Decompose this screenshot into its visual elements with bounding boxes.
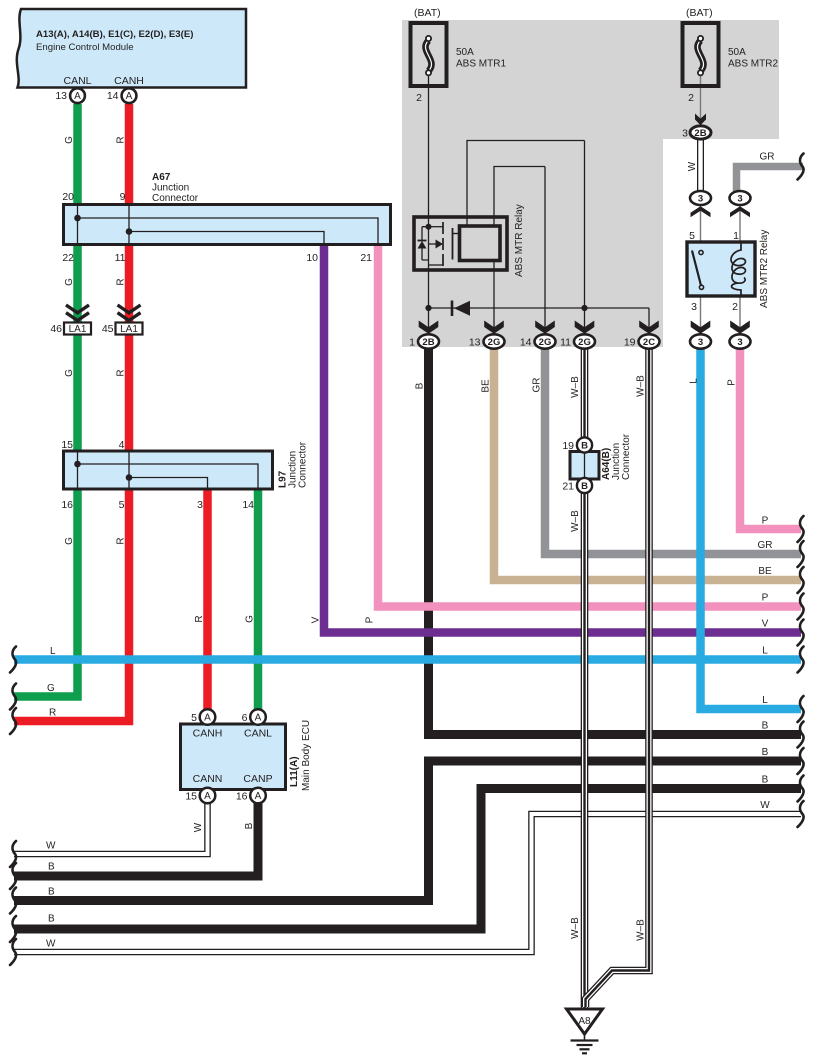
wire relay pin 3 to oval 3 [700,296,702,334]
svg-text:19: 19 [562,440,574,452]
wire R from L97 pin 3 to Main Body ECU pin 5 [203,487,212,710]
pin 19 circle B on A64(B) [577,437,592,452]
svg-text:BE: BE [758,566,772,577]
node junction dot diode row right [581,305,587,311]
svg-text:A: A [126,91,133,102]
break symbol right L row 2 [798,696,804,722]
svg-text:A: A [255,713,262,724]
arrow into oval 11 2G [575,321,595,334]
svg-text:11: 11 [560,337,571,349]
wire inside A67 pin9 to pin 10 [129,232,324,244]
break symbol right W row [798,801,804,827]
wire P from A67 pin 21 to right break [378,243,801,607]
junction connector A67 box [64,205,391,245]
break symbol right B row 2 [798,748,804,774]
svg-text:W: W [687,161,698,171]
arrow double chevron into LA1 left [66,305,89,313]
svg-text:W: W [46,841,56,852]
svg-text:W–B: W–B [570,510,581,532]
svg-text:3: 3 [698,194,703,205]
svg-text:14: 14 [107,90,119,102]
svg-text:Connector: Connector [152,193,199,204]
svg-text:GR: GR [532,378,543,393]
svg-text:W: W [760,800,770,811]
svg-text:P: P [762,593,769,604]
svg-text:G: G [64,537,75,545]
svg-text:Junction: Junction [152,183,189,194]
svg-text:B: B [581,441,588,452]
junction connector L97 box [64,451,273,489]
svg-text:A67: A67 [152,172,171,183]
svg-text:P: P [762,516,769,527]
arrow into oval 19 2C [639,321,659,334]
ABS MTR Relay outer box [414,217,507,270]
svg-text:B: B [762,721,769,732]
svg-text:ABS MTR Relay: ABS MTR Relay [514,204,525,277]
break symbol right GR top [798,154,804,180]
arrow into oval 3 from relay pin 3 [691,321,711,334]
wire G CANL from ECM pin 13 to A67 [73,104,82,206]
pin 15 circle A on L11 [200,788,216,804]
svg-text:22: 22 [62,252,74,264]
node junction dot diode row left [425,305,431,311]
svg-text:P: P [727,379,738,386]
svg-text:5: 5 [119,499,125,511]
arrow into oval 14 2G [535,321,555,334]
svg-text:L: L [762,646,768,657]
fuse element symbol MTR2 [697,41,703,72]
svg-text:13: 13 [55,90,67,102]
svg-text:L: L [762,695,768,706]
svg-text:V: V [762,619,769,630]
oval 19 2C [639,334,660,348]
break symbol right BE row [798,567,804,593]
break symbol right B row 3 [798,776,804,802]
svg-text:2C: 2C [643,337,655,348]
wire B from Main Body ECU pin 16 CANP to left break [14,803,258,876]
node dot A67 CANH [126,228,133,235]
wire inside L97 pin15 to pin 14 [78,464,259,488]
wire oval 3 to relay pin 1 [739,205,741,242]
pin 13 circle A on ECM [70,88,85,103]
svg-text:16: 16 [61,499,73,511]
svg-text:2G: 2G [578,337,591,348]
svg-text:3: 3 [698,337,703,348]
svg-text:15: 15 [61,439,73,451]
svg-text:2B: 2B [694,128,706,139]
wire G from LA1 to L97 pin 15 [73,335,82,454]
svg-text:Engine Control Module: Engine Control Module [36,42,134,53]
node dot L97 mid [126,474,133,481]
svg-text:B: B [244,822,255,829]
wire fuse ABS MTR2 to oval 3 2B [700,75,702,125]
svg-text:2G: 2G [488,337,501,348]
fuse 50A ABS MTR2 box [683,23,719,86]
svg-text:9: 9 [120,191,126,203]
svg-text:L: L [689,378,700,384]
arrow into oval 2B top right [695,114,706,126]
svg-text:20: 20 [62,191,74,203]
wire inside L97 through verticals [78,453,130,488]
svg-text:GR: GR [760,152,775,163]
wire R from A67 pin 11 to LA1 [125,243,134,322]
svg-text:A: A [204,791,211,802]
arrow into oval 1 2B [419,321,439,334]
wire R from L97 pin 5 to left break [14,487,129,721]
svg-text:4: 4 [119,439,125,451]
svg-text:G: G [64,369,75,377]
transistor Q1 driver symbol inside relay [418,222,460,266]
svg-text:R: R [49,708,56,719]
wire G from L97 pin 14 to Main Body ECU pin 6 [254,487,263,710]
wire G from A67 pin 22 to LA1 [73,243,82,322]
svg-text:W–B: W–B [570,917,581,939]
svg-text:B: B [762,775,769,786]
svg-text:G: G [47,683,55,694]
oval 3 under GR wire [730,191,751,205]
svg-text:CANP: CANP [243,773,272,785]
svg-text:50A: 50A [456,47,474,58]
pin 21 circle B on A64(B) [577,478,592,493]
svg-text:46: 46 [50,323,62,335]
oval 1 2B [418,334,439,348]
wire W from Main Body ECU pin 15 CANN to left break [14,803,208,854]
svg-text:R: R [116,537,127,544]
break symbol right V row [798,620,804,646]
svg-text:G: G [64,136,75,144]
svg-text:2: 2 [416,92,422,104]
break symbol left B row 1 [10,863,16,889]
svg-text:5: 5 [689,230,695,242]
ground symbol earth [571,1034,599,1053]
wire diode row [429,307,650,309]
wire inside A64(B) [584,452,586,478]
coil inside ABS MTR2 relay [731,242,745,296]
fuse 50A ABS MTR1 box [411,23,447,86]
wire V from A67 pin 10 to right break [324,243,801,633]
break symbol right B row 1 [798,722,804,748]
oval 3 under W wire [690,191,711,205]
svg-text:GR: GR [758,540,773,551]
break symbol right P row [798,516,804,542]
svg-text:R: R [194,615,205,622]
node dot L97 left [74,461,81,468]
diode D on motor relay row [451,301,454,317]
svg-text:6: 6 [242,712,248,724]
svg-text:Connector: Connector [621,433,632,480]
wire B row lower to left break [14,789,801,930]
svg-text:2: 2 [688,92,694,104]
wire diode row to oval 19 2C [648,308,650,334]
svg-text:16: 16 [236,791,248,803]
wire P from oval 3 relay pin 2 to right break [740,345,801,529]
wire relay coil to right loop [494,167,545,227]
ECM A13 connector box Engine Control Module [17,9,246,88]
arrow up into oval 3 right [730,206,750,217]
svg-text:13: 13 [469,337,481,349]
Main Body ECU L11 box [181,724,286,790]
svg-text:CANL: CANL [244,728,272,740]
svg-text:ABS MTR2 Relay: ABS MTR2 Relay [759,230,770,308]
svg-text:ABS MTR2: ABS MTR2 [728,59,778,70]
svg-text:Main Body ECU: Main Body ECU [301,720,312,791]
break symbol left W row 2 [10,939,16,965]
break symbol right P row 2 [798,594,804,620]
wire node to oval 11 2G [584,141,586,335]
svg-text:W–B: W–B [636,375,647,397]
ABS MTR Relay coil box [460,226,501,261]
svg-text:2B: 2B [422,337,434,348]
svg-text:CANL: CANL [63,75,91,87]
shaded relay block background right [663,20,779,139]
svg-text:2G: 2G [539,337,552,348]
svg-text:1: 1 [409,337,415,349]
svg-text:BE: BE [481,379,492,393]
oval 13 2G [484,334,505,348]
svg-text:LA1: LA1 [69,324,87,335]
svg-text:A: A [74,91,81,102]
svg-text:L: L [50,646,56,657]
oval 3 P wire [730,334,751,348]
svg-text:A: A [204,713,211,724]
arrow into oval 13 2G [484,321,504,334]
oval 11 2G [574,334,595,348]
pin 6 circle A on L11 [250,709,266,725]
svg-text:A13(A), A14(B), E1(C), E2(D),: A13(A), A14(B), E1(C), E2(D), E3(E) [36,29,193,40]
svg-text:3: 3 [737,194,742,205]
break symbol left W row [10,841,16,867]
svg-text:3: 3 [737,337,742,348]
node dot A67 CANL [74,215,81,222]
svg-text:R: R [116,136,127,143]
junction connector A64(B) box [570,452,599,480]
wire inside L97 pin4 to pin 3 [129,478,208,489]
break symbol left G row [10,684,16,710]
wire BE from oval 13 2G to right break [494,345,801,580]
svg-text:B: B [581,481,588,492]
wire G from L97 pin 16 to left break [14,487,78,697]
arrow double chevron into LA1 right [118,305,141,313]
svg-text:B: B [415,382,426,389]
svg-text:V: V [311,616,322,623]
svg-text:W: W [46,939,56,950]
wire R from LA1 to L97 pin 4 [125,335,134,454]
wire L from oval 3 relay pin 3 to right break [701,345,802,709]
wire L bus row across page [14,655,801,664]
wire W-B from oval 19 2C joining ground A8 [586,345,650,1007]
oval 3 2B top right [690,126,711,139]
wire R CANH from ECM pin 14 to A67 [125,104,134,206]
svg-text:W–B: W–B [636,919,647,941]
svg-text:50A: 50A [728,47,746,58]
break symbol right L row [798,647,804,673]
svg-text:B: B [48,862,55,873]
svg-text:B: B [48,887,55,898]
break symbol left B row 2 [10,888,16,914]
wire W from oval 2B to oval 3 top right [697,137,704,194]
wire relay coil bottom to oval 13 2G [493,261,495,335]
ground triangle A8 [567,1009,603,1034]
wire W row from right break to left break [14,814,801,952]
wire inside A67 pin20 to pin 21 [78,218,379,243]
svg-text:3: 3 [691,301,697,313]
wire GR from oval 14 2G to right break [545,345,801,554]
svg-text:5: 5 [191,712,197,724]
break symbol left L row [10,647,16,673]
svg-text:B: B [762,747,769,758]
svg-text:G: G [245,615,256,623]
break symbol left R row [10,708,16,734]
svg-text:LA1: LA1 [120,324,138,335]
svg-text:11: 11 [115,252,126,264]
wire GR from right break to oval 3 at relay pin 1 [737,167,804,193]
wire oval 3 to relay pin 5 [700,205,702,242]
svg-text:21: 21 [360,252,372,264]
svg-text:15: 15 [185,791,197,803]
svg-text:A8: A8 [578,1016,591,1027]
arrow into oval 3 from relay pin 2 [730,321,750,334]
svg-text:10: 10 [306,252,318,264]
svg-text:45: 45 [102,323,114,335]
break symbol left B row 3 [10,916,16,942]
wire relay pin 2 to oval 3 [739,296,741,334]
svg-text:(BAT): (BAT) [414,7,441,19]
svg-text:A: A [255,791,262,802]
wire relay pin to node over box [467,141,585,227]
connector LA1 45 box [116,323,143,335]
svg-text:CANH: CANH [114,75,144,87]
svg-text:21: 21 [562,481,574,493]
svg-text:2: 2 [732,301,738,313]
svg-text:CANN: CANN [193,773,223,785]
svg-text:R: R [116,369,127,376]
wire loop to oval 14 2G [544,167,546,335]
svg-text:W: W [193,822,204,832]
svg-text:P: P [365,616,376,623]
svg-text:ABS MTR1: ABS MTR1 [456,59,506,70]
svg-text:19: 19 [624,337,636,349]
oval 3 L wire [690,334,711,348]
svg-text:B: B [48,914,55,925]
wire B from oval 1 2B to right break row [429,345,802,735]
svg-text:3: 3 [197,499,203,511]
oval 14 2G [535,334,556,348]
connector LA1 46 box [64,323,91,335]
svg-text:CANH: CANH [193,728,223,740]
switch contact inside ABS MTR2 relay [692,250,704,289]
pin 16 circle A on L11 [250,788,266,804]
wire fuse ABS MTR1 to relay and oval 1 2B [428,75,430,334]
arrow up into oval 3 left [691,206,711,217]
pin 14 circle A on ECM [122,88,137,103]
svg-text:R: R [116,278,127,285]
svg-text:G: G [64,278,75,286]
svg-text:L11(A): L11(A) [289,756,300,787]
fuse element symbol MTR1 [425,41,431,72]
wire B row mid to left break [14,761,801,901]
relay ABS MTR2 box [687,242,755,296]
svg-text:14: 14 [520,337,532,349]
svg-text:(BAT): (BAT) [686,7,713,19]
svg-text:14: 14 [242,499,254,511]
wire inside A67 through verticals [78,206,130,244]
svg-text:W–B: W–B [570,376,581,398]
svg-text:Connector: Connector [298,441,309,488]
shaded relay block background left [402,20,663,347]
svg-text:1: 1 [733,230,739,242]
break symbol right GR row [798,541,804,567]
wire W-B from oval 11 2G through A64(B) to ground A8 [581,345,589,1009]
svg-text:3: 3 [682,128,688,140]
pin 5 circle A on L11 [200,709,216,725]
